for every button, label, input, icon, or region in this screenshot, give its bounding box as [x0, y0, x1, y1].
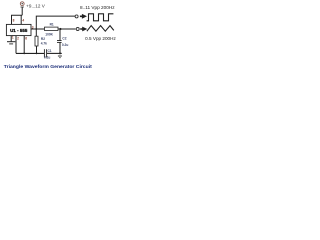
node: R2/rail junction: [36, 53, 38, 55]
ground (right): [58, 56, 62, 58]
svg-text:0.5 Vpp 200Hz: 0.5 Vpp 200Hz: [85, 36, 116, 41]
svg-text:+9...12 V: +9...12 V: [26, 4, 45, 9]
wire: power drop: [21, 7, 23, 15]
svg-text:8..11 Vpp 200Hz: 8..11 Vpp 200Hz: [80, 5, 115, 10]
wire: R2 to rail: [36, 46, 38, 53]
svg-text:6: 6: [25, 37, 27, 41]
resistor R1: [45, 23, 59, 37]
capacitor C2: [57, 29, 68, 53]
svg-text:2: 2: [17, 37, 19, 41]
background: [0, 0, 120, 73]
IC bottom pin 1 + ground: [7, 35, 15, 44]
wire: top rail: [12, 15, 23, 24]
wire: bottom rail left: [16, 52, 44, 54]
svg-text:U1 - 555: U1 - 555: [10, 28, 28, 33]
power terminal +V: [20, 2, 24, 7]
capacitor C1 (series): [44, 49, 52, 60]
svg-text:4: 4: [22, 18, 24, 22]
node: pin3/branch junction: [35, 28, 37, 30]
svg-text:100K: 100K: [45, 32, 53, 36]
svg-text:C1: C1: [48, 49, 52, 53]
svg-text:8: 8: [13, 18, 15, 22]
svg-text:R2: R2: [41, 37, 45, 41]
square wave symbol: [87, 14, 114, 21]
triangle output terminal: [76, 28, 79, 31]
node: R1/C2 junction: [59, 28, 61, 30]
IC bottom pin 6: [23, 36, 25, 54]
svg-text:C2: C2: [62, 37, 66, 41]
square output terminal: [75, 15, 78, 18]
svg-text:R1: R1: [50, 23, 54, 27]
wire: pin3 net horizontal: [31, 28, 76, 30]
svg-text:Triangle Waveform Generator Ci: Triangle Waveform Generator Circuit: [4, 64, 93, 69]
svg-text:0.1u: 0.1u: [44, 56, 50, 60]
IC bottom pin 2: [15, 36, 17, 54]
IC U1 555: [6, 24, 31, 35]
resistor R2: [35, 36, 47, 46]
triangle wave symbol: [87, 26, 114, 32]
wire: square-out branch: [36, 16, 75, 36]
svg-text:4.7k: 4.7k: [41, 42, 47, 46]
node: C2/rail junction: [59, 52, 61, 54]
triangle output arrow: [80, 27, 87, 32]
svg-text:0.2u: 0.2u: [62, 43, 68, 47]
square output arrow: [80, 14, 87, 19]
svg-text:1: 1: [12, 35, 14, 39]
wire: bottom rail right: [47, 52, 62, 54]
node: pin6/rail junction: [23, 53, 25, 55]
